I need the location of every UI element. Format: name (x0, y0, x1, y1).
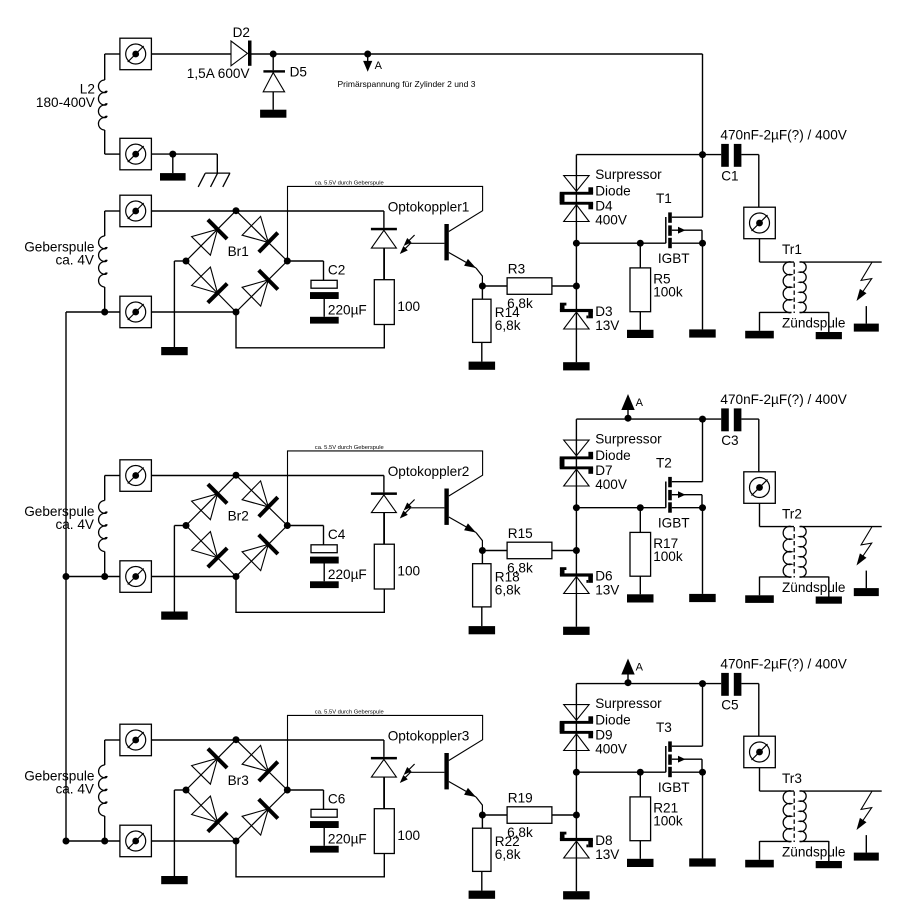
svg-text:C5: C5 (721, 697, 738, 712)
svg-text:D6: D6 (595, 569, 612, 584)
svg-text:470nF-2µF(?) / 400V: 470nF-2µF(?) / 400V (720, 657, 846, 672)
svg-text:D3: D3 (595, 304, 612, 319)
svg-text:6,8k: 6,8k (495, 847, 521, 862)
svg-text:D5: D5 (290, 64, 307, 79)
svg-text:A: A (636, 661, 644, 673)
svg-text:D2: D2 (233, 25, 250, 40)
svg-text:Primärspannung für Zylinder 2: Primärspannung für Zylinder 2 und 3 (338, 79, 476, 89)
svg-text:100: 100 (397, 828, 420, 843)
svg-text:100k: 100k (653, 284, 683, 299)
svg-text:ca. 4V: ca. 4V (55, 781, 94, 796)
svg-text:ca. 4V: ca. 4V (55, 252, 94, 267)
svg-text:Diode: Diode (595, 448, 631, 463)
svg-text:1,5A 600V: 1,5A 600V (187, 66, 250, 81)
svg-text:100k: 100k (653, 549, 683, 564)
svg-text:Diode: Diode (595, 712, 631, 727)
svg-text:ca. 5.5V durch Geberspule: ca. 5.5V durch Geberspule (315, 709, 384, 715)
svg-text:A: A (375, 60, 383, 72)
svg-text:R3: R3 (508, 262, 525, 277)
svg-text:Tr2: Tr2 (782, 507, 802, 522)
svg-text:IGBT: IGBT (658, 251, 690, 266)
svg-text:ca. 5.5V durch Geberspule: ca. 5.5V durch Geberspule (315, 445, 384, 451)
svg-text:D9: D9 (595, 728, 612, 743)
svg-text:T3: T3 (656, 720, 672, 735)
svg-text:Zündspule: Zündspule (782, 580, 845, 595)
svg-text:Surpressor: Surpressor (595, 432, 662, 447)
svg-text:Br1: Br1 (228, 244, 249, 259)
svg-text:ca. 5.5V durch Geberspule: ca. 5.5V durch Geberspule (315, 180, 384, 186)
svg-text:Surpressor: Surpressor (595, 696, 662, 711)
svg-text:Zündspule: Zündspule (782, 316, 845, 331)
svg-text:T1: T1 (656, 191, 672, 206)
svg-text:Optokoppler1: Optokoppler1 (388, 200, 470, 215)
svg-text:400V: 400V (595, 742, 627, 757)
svg-text:Tr1: Tr1 (782, 242, 802, 257)
svg-text:180-400V: 180-400V (36, 95, 95, 110)
svg-text:Br3: Br3 (228, 773, 249, 788)
svg-text:220µF: 220µF (328, 831, 367, 846)
svg-text:Zündspule: Zündspule (782, 845, 845, 860)
svg-text:400V: 400V (595, 477, 627, 492)
svg-text:C6: C6 (328, 791, 345, 806)
svg-text:100: 100 (397, 564, 420, 579)
svg-text:Optokoppler3: Optokoppler3 (388, 729, 470, 744)
svg-text:Surpressor: Surpressor (595, 167, 662, 182)
svg-text:470nF-2µF(?) / 400V: 470nF-2µF(?) / 400V (720, 128, 846, 143)
svg-text:C3: C3 (721, 433, 738, 448)
svg-text:R19: R19 (508, 791, 533, 806)
svg-text:400V: 400V (595, 213, 627, 228)
svg-text:Tr3: Tr3 (782, 771, 802, 786)
svg-text:13V: 13V (595, 583, 619, 598)
svg-text:IGBT: IGBT (658, 780, 690, 795)
svg-text:D8: D8 (595, 833, 612, 848)
svg-text:Br2: Br2 (228, 509, 249, 524)
svg-text:6,8k: 6,8k (495, 318, 521, 333)
svg-text:Optokoppler2: Optokoppler2 (388, 464, 470, 479)
svg-text:220µF: 220µF (328, 567, 367, 582)
svg-text:R15: R15 (508, 526, 533, 541)
svg-text:470nF-2µF(?) / 400V: 470nF-2µF(?) / 400V (720, 392, 846, 407)
svg-text:220µF: 220µF (328, 302, 367, 317)
svg-text:ca. 4V: ca. 4V (55, 517, 94, 532)
svg-text:100: 100 (397, 299, 420, 314)
svg-text:100k: 100k (653, 813, 683, 828)
svg-text:Diode: Diode (595, 183, 631, 198)
svg-text:D4: D4 (595, 199, 613, 214)
svg-text:C1: C1 (721, 168, 738, 183)
svg-text:13V: 13V (595, 847, 619, 862)
svg-text:IGBT: IGBT (658, 516, 690, 531)
svg-text:13V: 13V (595, 318, 619, 333)
svg-text:A: A (636, 397, 644, 409)
svg-text:T2: T2 (656, 456, 672, 471)
svg-text:C2: C2 (328, 262, 345, 277)
svg-text:C4: C4 (328, 527, 346, 542)
svg-text:6,8k: 6,8k (495, 582, 521, 597)
svg-text:D7: D7 (595, 463, 612, 478)
